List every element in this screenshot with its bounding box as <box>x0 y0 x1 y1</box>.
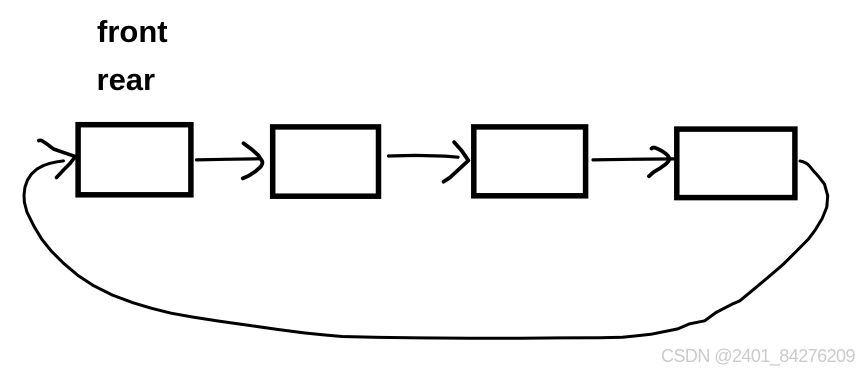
svg-text:CSDN @2401_84276209: CSDN @2401_84276209 <box>661 346 856 367</box>
svg-text:front: front <box>97 14 168 49</box>
svg-text:rear: rear <box>97 62 156 97</box>
